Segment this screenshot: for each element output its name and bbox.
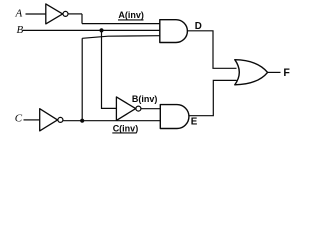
OR gate F (235, 60, 268, 85)
wire E to OR gate input 2 (189, 80, 237, 115)
svg-text:F: F (283, 67, 290, 79)
wire B(inv) to AND gate E input 1 (141, 108, 161, 110)
inverter U3 (C) triangle (40, 109, 58, 131)
inverter U1 bubble (63, 11, 68, 16)
inverter U1 (A) triangle (46, 4, 63, 24)
AND gate D (160, 20, 188, 43)
wire C(inv) branch: vertical up at x=82 (81, 38, 83, 120)
junction node on B wire (99, 28, 103, 32)
inverter U2 bubble (136, 106, 141, 111)
inverter U2 (B) triangle (116, 97, 135, 121)
wire B to AND gate D input 2 (23, 29, 160, 31)
wire A(inv): vertical step at x=82 (81, 14, 83, 24)
wire B branch: vertical down to B(inv) inverter (102, 30, 117, 108)
wire F output (267, 71, 280, 73)
svg-text:A: A (15, 8, 23, 20)
junction node on C(inv) wire (80, 119, 84, 123)
wire C(inv) to AND gate E input 2 (63, 120, 160, 122)
wire C to inverter (24, 119, 40, 121)
svg-text:C: C (15, 113, 23, 125)
inverter U3 bubble (58, 117, 63, 122)
svg-text:E: E (191, 116, 198, 127)
svg-text:B(inv): B(inv) (132, 94, 158, 104)
wire D to OR gate input 1 (187, 31, 236, 69)
wire A(inv): horizontal to AND gate D input 1 (82, 23, 160, 25)
wire A to inverter (26, 13, 46, 15)
svg-text:A(inv): A(inv) (118, 10, 143, 20)
svg-text:C(inv): C(inv) (113, 123, 139, 133)
svg-text:B: B (17, 24, 24, 36)
AND gate E (160, 105, 189, 129)
wire C(inv) branch: to AND gate D input 3 (82, 36, 160, 39)
wire A(inv): bubble to step-down corner (68, 13, 82, 15)
